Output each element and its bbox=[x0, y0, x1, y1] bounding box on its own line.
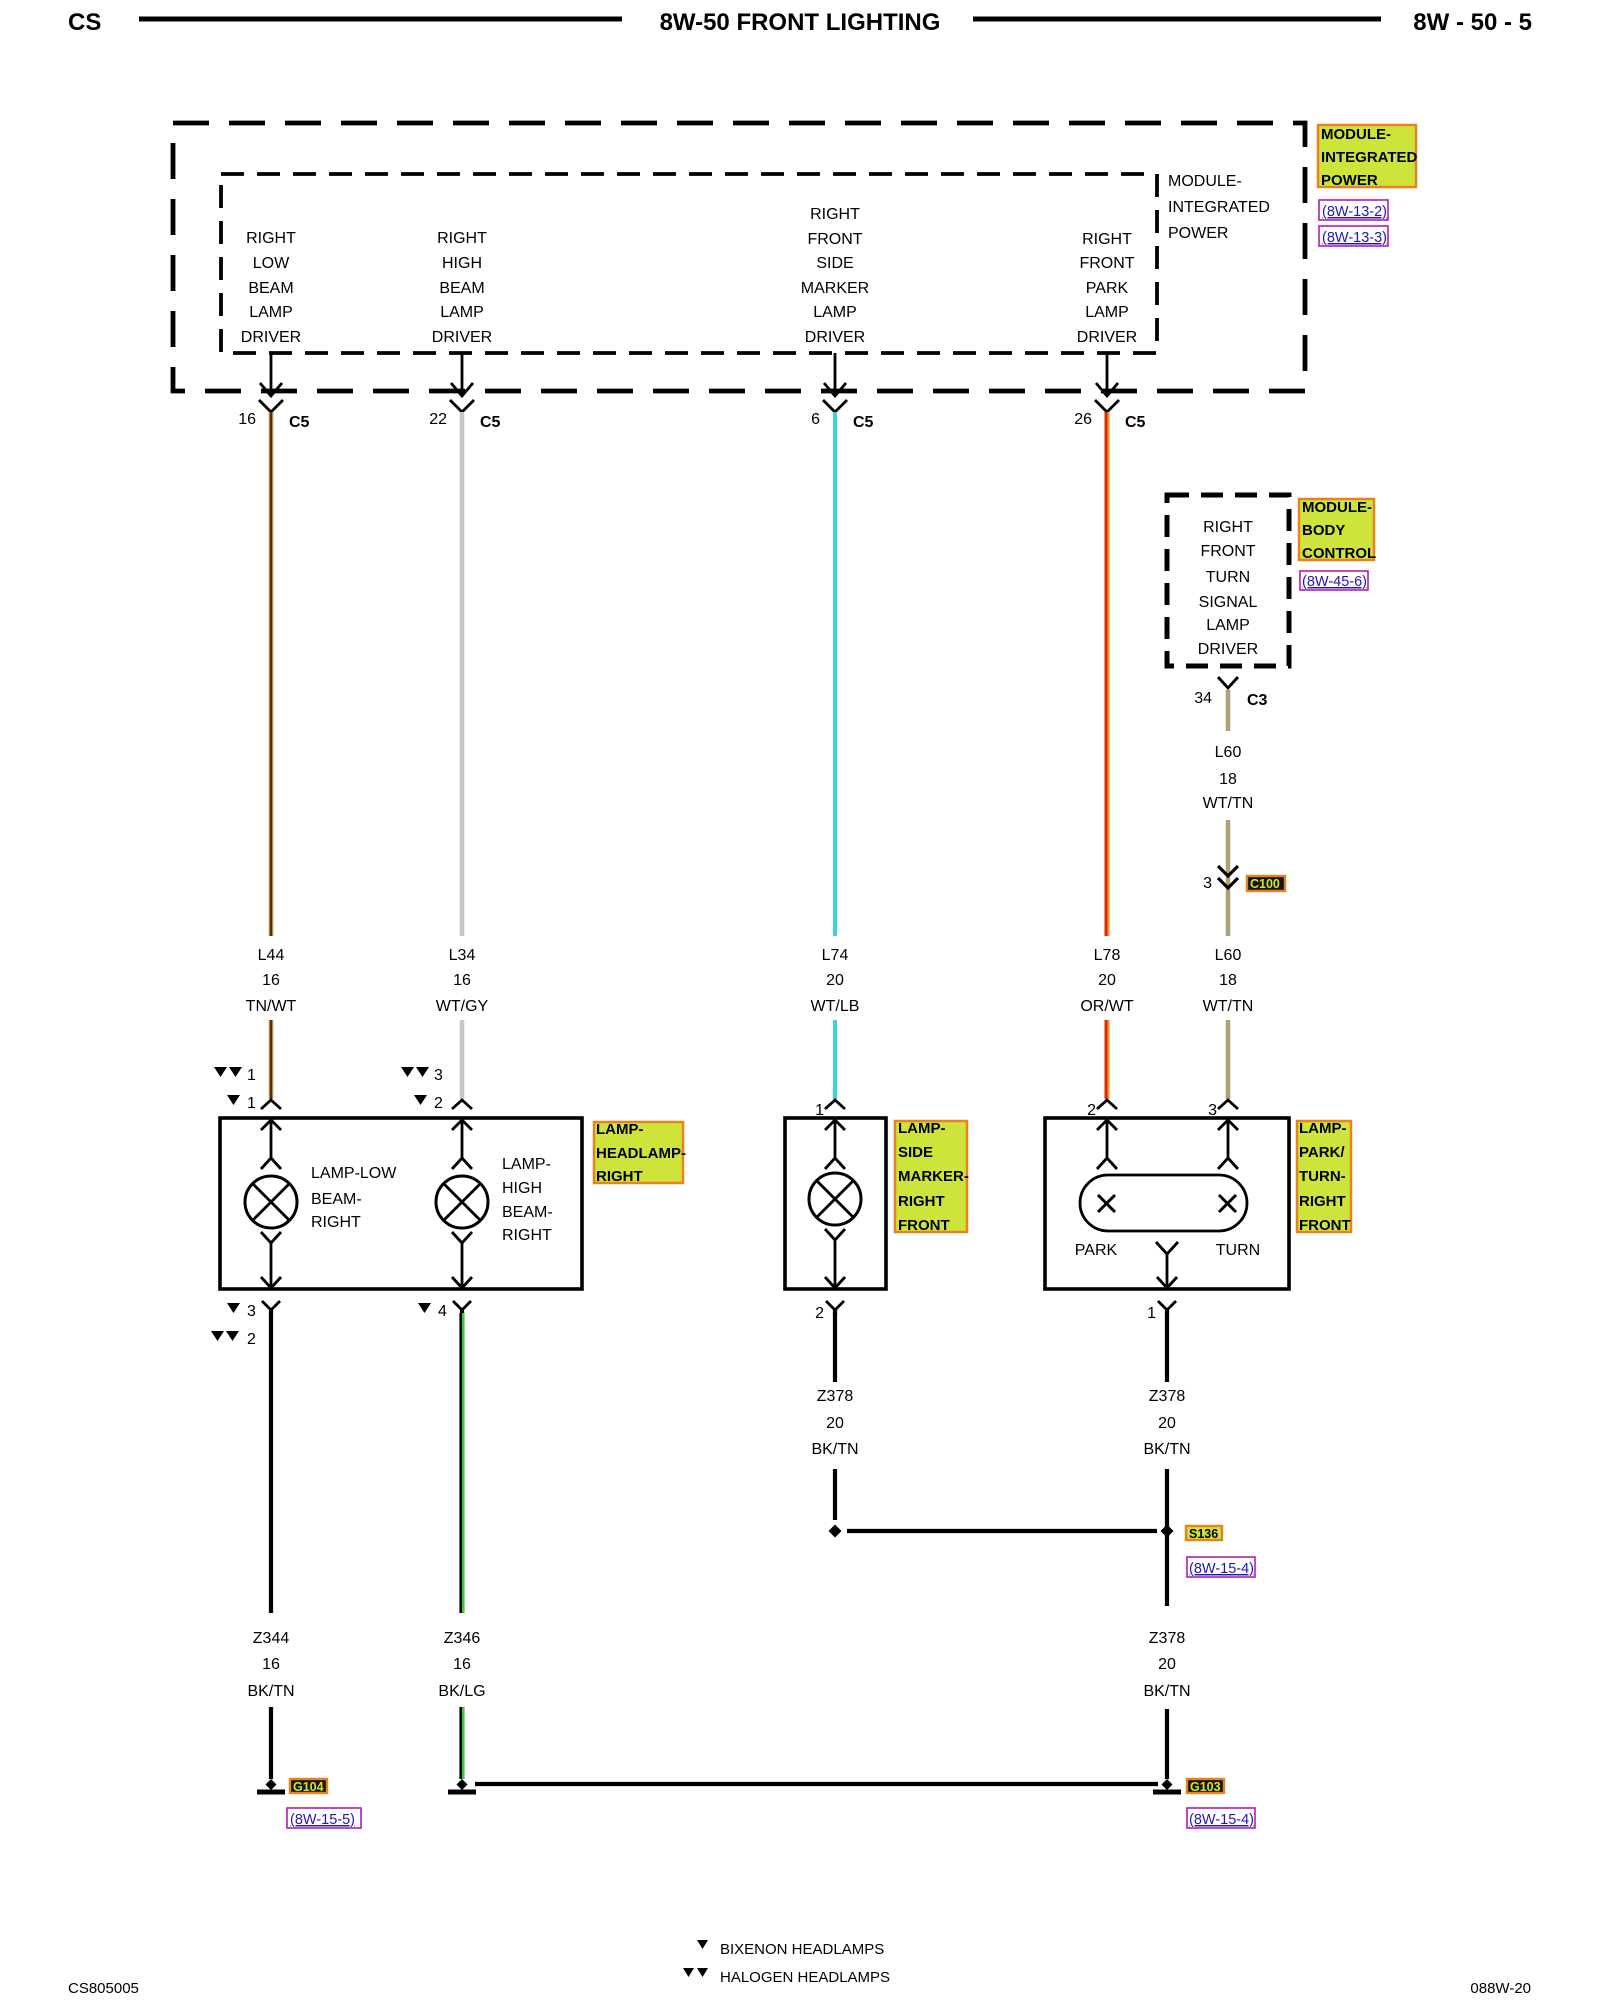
high beam branch bottom arrow bbox=[452, 1232, 472, 1288]
svg-text:(8W-15-4): (8W-15-4) bbox=[1189, 1812, 1254, 1828]
svg-text:HIGH: HIGH bbox=[442, 255, 482, 272]
ground label G103 bbox=[1187, 1779, 1224, 1794]
svg-text:8W-50 FRONT LIGHTING: 8W-50 FRONT LIGHTING bbox=[660, 9, 941, 36]
driver output arrow pin6 bbox=[824, 353, 846, 396]
link 8W-15-5 bbox=[287, 1808, 361, 1828]
wire label L78 20 OR/WT bbox=[1080, 947, 1134, 1015]
svg-text:RIGHT: RIGHT bbox=[596, 1168, 643, 1185]
svg-text:HEADLAMP-: HEADLAMP- bbox=[596, 1145, 686, 1162]
wire Z346 BK/LG upper segment bbox=[461, 1313, 464, 1613]
svg-text:MODULE-: MODULE- bbox=[1302, 499, 1372, 516]
turn branch top arrow bbox=[1218, 1120, 1238, 1169]
svg-text:18: 18 bbox=[1219, 771, 1237, 788]
svg-text:INTEGRATED: INTEGRATED bbox=[1321, 149, 1418, 166]
svg-text:088W-20: 088W-20 bbox=[1470, 1980, 1531, 1997]
wire Z378 park/turn through splice bbox=[1165, 1469, 1169, 1606]
MODULE-BODY CONTROL dashed box bbox=[1167, 495, 1289, 666]
splice label S136 bbox=[1186, 1526, 1222, 1541]
svg-text:3: 3 bbox=[1203, 875, 1212, 892]
connector C5 pin 16 bbox=[238, 400, 309, 431]
svg-text:LAMP: LAMP bbox=[1206, 617, 1250, 634]
svg-text:FRONT: FRONT bbox=[1299, 1217, 1351, 1234]
svg-text:G104: G104 bbox=[293, 1780, 324, 1794]
connector C3 pin 34 bbox=[1194, 677, 1267, 709]
svg-text:INTEGRATED: INTEGRATED bbox=[1168, 199, 1270, 216]
svg-text:20: 20 bbox=[826, 1415, 844, 1432]
svg-text:DRIVER: DRIVER bbox=[1198, 641, 1258, 658]
legend halogen bbox=[683, 1968, 890, 1986]
splice node S136 bbox=[1161, 1525, 1174, 1538]
callout box LAMP-SIDE MARKER-RIGHT FRONT bbox=[895, 1120, 969, 1234]
park/turn common bottom arrow bbox=[1156, 1242, 1178, 1288]
svg-text:2: 2 bbox=[815, 1305, 824, 1322]
ground symbol at Z346 bbox=[448, 1790, 476, 1795]
wire label L44 16 TN/WT bbox=[246, 947, 297, 1015]
bixenon marker pin 3 (low beam return) bbox=[227, 1303, 256, 1320]
connector C5 pin 22 bbox=[429, 400, 500, 431]
link 8W-13-3 bbox=[1319, 226, 1388, 246]
svg-text:L34: L34 bbox=[449, 947, 476, 964]
svg-text:20: 20 bbox=[826, 972, 844, 989]
svg-text:18: 18 bbox=[1219, 972, 1237, 989]
wire label Z378 20 BK/TN (side marker) bbox=[811, 1388, 858, 1458]
svg-text:TURN: TURN bbox=[1206, 569, 1250, 586]
wire Z346 to ground bbox=[461, 1707, 464, 1779]
bulb high beam bbox=[436, 1176, 488, 1228]
svg-text:BEAM: BEAM bbox=[248, 280, 293, 297]
label MODULE-INTEGRATED POWER (inside box) bbox=[1168, 173, 1270, 242]
svg-text:TURN-: TURN- bbox=[1299, 1168, 1346, 1185]
callout box MODULE-INTEGRATED POWER bbox=[1318, 125, 1418, 189]
svg-text:Z378: Z378 bbox=[817, 1388, 854, 1405]
svg-text:LAMP-LOW: LAMP-LOW bbox=[311, 1165, 397, 1182]
low beam branch bottom arrow bbox=[261, 1232, 281, 1288]
svg-text:WT/TN: WT/TN bbox=[1203, 795, 1254, 812]
bixenon marker pin 4 (high beam return) bbox=[418, 1303, 447, 1320]
splice node at side marker bbox=[829, 1525, 842, 1538]
callout box MODULE-BODY CONTROL bbox=[1299, 499, 1376, 562]
svg-text:3: 3 bbox=[247, 1303, 256, 1320]
svg-text:Z378: Z378 bbox=[1149, 1630, 1186, 1647]
svg-text:RIGHT: RIGHT bbox=[810, 206, 860, 223]
pin 3 turn bbox=[1208, 1100, 1238, 1119]
halogen marker pin 1 (low beam) bbox=[214, 1067, 256, 1084]
wire L60 WT/TN segment below C3 bbox=[1226, 690, 1231, 731]
svg-text:FRONT: FRONT bbox=[807, 231, 862, 248]
svg-text:RIGHT: RIGHT bbox=[246, 230, 296, 247]
svg-text:BK/TN: BK/TN bbox=[1143, 1441, 1190, 1458]
wire L74 WT/LB lower segment bbox=[833, 1020, 837, 1099]
svg-text:LAMP-: LAMP- bbox=[1299, 1120, 1347, 1137]
svg-text:MODULE-: MODULE- bbox=[1321, 126, 1391, 143]
wire label L34 16 WT/GY bbox=[436, 947, 489, 1015]
svg-text:RIGHT: RIGHT bbox=[502, 1227, 552, 1244]
svg-text:WT/GY: WT/GY bbox=[436, 998, 489, 1015]
svg-text:BODY: BODY bbox=[1302, 522, 1345, 539]
wire label Z378 20 BK/TN (park/turn) bbox=[1143, 1388, 1190, 1458]
svg-text:POWER: POWER bbox=[1321, 172, 1378, 189]
svg-text:LAMP: LAMP bbox=[249, 304, 293, 321]
svg-text:L60: L60 bbox=[1215, 744, 1242, 761]
svg-text:L44: L44 bbox=[258, 947, 285, 964]
bulb low beam bbox=[245, 1176, 297, 1228]
svg-text:C100: C100 bbox=[1250, 877, 1280, 891]
svg-text:LAMP-: LAMP- bbox=[502, 1156, 551, 1173]
svg-text:TN/WT: TN/WT bbox=[246, 998, 297, 1015]
svg-text:CS805005: CS805005 bbox=[68, 1980, 139, 1997]
wire label Z344 16 BK/TN bbox=[247, 1630, 294, 1700]
park/turn dual filament lamp body bbox=[1080, 1175, 1247, 1231]
halogen marker pin 2 (low beam return) bbox=[211, 1331, 256, 1348]
svg-text:LAMP: LAMP bbox=[440, 304, 484, 321]
connector at headlamp pin 1 bbox=[261, 1100, 281, 1109]
link 8W-13-2 bbox=[1319, 200, 1388, 220]
svg-text:C5: C5 bbox=[480, 414, 501, 431]
svg-text:(8W-15-4): (8W-15-4) bbox=[1189, 1561, 1254, 1577]
svg-text:PARK/: PARK/ bbox=[1299, 1144, 1345, 1161]
MODULE-INTEGRATED POWER outer dashed box bbox=[173, 123, 1305, 391]
driver output arrow pin26 bbox=[1096, 353, 1118, 396]
wire L34 WT/GY upper segment bbox=[460, 412, 465, 936]
svg-text:BK/TN: BK/TN bbox=[247, 1683, 294, 1700]
svg-text:DRIVER: DRIVER bbox=[432, 329, 492, 346]
svg-text:20: 20 bbox=[1098, 972, 1116, 989]
svg-text:SIGNAL: SIGNAL bbox=[1199, 594, 1258, 611]
park branch top arrow bbox=[1097, 1120, 1117, 1169]
splice S136 horizontal wire bbox=[847, 1529, 1157, 1533]
svg-text:C5: C5 bbox=[289, 414, 310, 431]
svg-text:1: 1 bbox=[247, 1067, 256, 1084]
svg-text:RIGHT: RIGHT bbox=[1203, 519, 1253, 536]
svg-text:WT/TN: WT/TN bbox=[1203, 998, 1254, 1015]
wire Z378 side marker upper segment bbox=[833, 1313, 837, 1382]
svg-text:OR/WT: OR/WT bbox=[1080, 998, 1134, 1015]
bixenon marker pin 2 (high beam) bbox=[414, 1095, 443, 1112]
svg-text:CONTROL: CONTROL bbox=[1302, 545, 1376, 562]
svg-text:BIXENON HEADLAMPS: BIXENON HEADLAMPS bbox=[720, 1941, 884, 1958]
svg-text:20: 20 bbox=[1158, 1415, 1176, 1432]
svg-text:LOW: LOW bbox=[253, 255, 290, 272]
svg-text:2: 2 bbox=[247, 1331, 256, 1348]
svg-text:RIGHT: RIGHT bbox=[898, 1193, 945, 1210]
label RIGHT FRONT SIDE MARKER LAMP DRIVER bbox=[801, 206, 869, 346]
link 8W-15-4 (splice) bbox=[1187, 1557, 1255, 1577]
wire L78 OR/WT lower segment bbox=[1106, 1020, 1107, 1099]
connector C5 pin 6 bbox=[811, 400, 873, 431]
svg-text:G103: G103 bbox=[1190, 1780, 1221, 1794]
wire L44 TN/WT lower segment bbox=[268, 1020, 274, 1099]
svg-text:LAMP-: LAMP- bbox=[898, 1120, 946, 1137]
link 8W-45-6 bbox=[1300, 571, 1368, 590]
svg-text:BK/TN: BK/TN bbox=[811, 1441, 858, 1458]
svg-text:(8W-45-6): (8W-45-6) bbox=[1302, 574, 1367, 590]
ground node at Z346 bbox=[457, 1779, 468, 1790]
svg-text:MODULE-: MODULE- bbox=[1168, 173, 1242, 190]
svg-text:SIDE: SIDE bbox=[816, 255, 853, 272]
driver output arrow pin22 bbox=[451, 353, 473, 396]
header title 8W-50 FRONT LIGHTING bbox=[660, 9, 941, 36]
svg-text:Z378: Z378 bbox=[1149, 1388, 1186, 1405]
svg-text:Z344: Z344 bbox=[253, 1630, 290, 1647]
svg-text:LAMP: LAMP bbox=[1085, 304, 1129, 321]
svg-text:34: 34 bbox=[1194, 690, 1212, 707]
svg-text:1: 1 bbox=[1147, 1305, 1156, 1322]
svg-text:BEAM-: BEAM- bbox=[502, 1204, 553, 1221]
svg-text:FRONT: FRONT bbox=[1079, 255, 1134, 272]
svg-text:(8W-13-2): (8W-13-2) bbox=[1322, 204, 1387, 220]
wire Z344 BK/TN upper segment bbox=[269, 1313, 273, 1613]
svg-text:6: 6 bbox=[811, 411, 820, 428]
svg-text:HALOGEN HEADLAMPS: HALOGEN HEADLAMPS bbox=[720, 1969, 890, 1986]
label LAMP-LOW BEAM-RIGHT bbox=[311, 1165, 397, 1231]
connector at headlamp pin 3 bbox=[262, 1301, 280, 1316]
bixenon marker pin 1 (low beam) bbox=[227, 1095, 256, 1112]
module inner dashed box bbox=[221, 174, 1157, 353]
wire Z378 park/turn upper segment bbox=[1165, 1313, 1169, 1382]
label RIGHT LOW BEAM LAMP DRIVER bbox=[241, 230, 301, 346]
svg-text:PARK: PARK bbox=[1075, 1242, 1118, 1259]
svg-text:WT/LB: WT/LB bbox=[811, 998, 860, 1015]
header rule right bbox=[973, 17, 1381, 22]
svg-text:DRIVER: DRIVER bbox=[805, 329, 865, 346]
ground G103 node bbox=[1162, 1779, 1173, 1790]
svg-text:Z346: Z346 bbox=[444, 1630, 481, 1647]
svg-text:BK/LG: BK/LG bbox=[438, 1683, 485, 1700]
svg-text:16: 16 bbox=[238, 411, 256, 428]
component box LAMP-HEADLAMP-RIGHT bbox=[220, 1118, 582, 1289]
ground G104 symbol bbox=[257, 1790, 285, 1795]
svg-text:C3: C3 bbox=[1247, 692, 1268, 709]
pin 1 park/turn return bbox=[1147, 1301, 1176, 1322]
high beam branch top arrow bbox=[452, 1120, 472, 1169]
wire L60 WT/TN segment above C100 bbox=[1226, 820, 1231, 936]
wire L60 WT/TN lower segment bbox=[1226, 1020, 1231, 1099]
svg-text:HIGH: HIGH bbox=[502, 1180, 542, 1197]
header page number 8W - 50 - 5 bbox=[1413, 9, 1532, 36]
svg-text:C5: C5 bbox=[1125, 414, 1146, 431]
svg-text:RIGHT: RIGHT bbox=[311, 1214, 361, 1231]
svg-text:BEAM-: BEAM- bbox=[311, 1191, 362, 1208]
component box LAMP-SIDE MARKER-RIGHT FRONT bbox=[785, 1118, 886, 1289]
svg-text:RIGHT: RIGHT bbox=[1299, 1193, 1346, 1210]
svg-text:(8W-15-5): (8W-15-5) bbox=[290, 1812, 355, 1828]
wire L74 WT/LB upper segment bbox=[833, 412, 837, 936]
footer drawing number CS805005 bbox=[68, 1980, 139, 1997]
svg-text:FRONT: FRONT bbox=[898, 1217, 950, 1234]
ground label G104 bbox=[290, 1779, 327, 1794]
svg-text:SIDE: SIDE bbox=[898, 1144, 933, 1161]
header rule left bbox=[139, 17, 622, 22]
svg-text:16: 16 bbox=[262, 972, 280, 989]
svg-text:MARKER: MARKER bbox=[801, 280, 869, 297]
footer sheet number 088W-20 bbox=[1470, 1980, 1531, 1997]
svg-text:22: 22 bbox=[429, 411, 447, 428]
wire L78 OR/WT upper segment bbox=[1106, 412, 1107, 936]
wire L44 TN/WT upper segment bbox=[268, 412, 274, 936]
svg-text:L74: L74 bbox=[822, 947, 849, 964]
label TURN bbox=[1216, 1242, 1260, 1259]
label RIGHT FRONT PARK LAMP DRIVER bbox=[1077, 231, 1137, 346]
connector C5 pin 26 bbox=[1074, 400, 1145, 431]
svg-text:16: 16 bbox=[453, 1656, 471, 1673]
pin 2 park bbox=[1087, 1100, 1117, 1119]
component box LAMP-PARK/TURN-RIGHT FRONT bbox=[1045, 1118, 1289, 1289]
svg-text:16: 16 bbox=[262, 1656, 280, 1673]
svg-text:C5: C5 bbox=[853, 414, 874, 431]
svg-text:LAMP: LAMP bbox=[813, 304, 857, 321]
svg-text:CS: CS bbox=[68, 9, 101, 36]
low beam branch top arrow bbox=[261, 1120, 281, 1169]
side marker branch top arrow bbox=[825, 1120, 845, 1169]
svg-text:DRIVER: DRIVER bbox=[1077, 329, 1137, 346]
svg-text:POWER: POWER bbox=[1168, 225, 1228, 242]
wire label Z378 20 BK/TN (lower) bbox=[1143, 1630, 1190, 1700]
connector C100 bbox=[1203, 866, 1285, 892]
label RIGHT HIGH BEAM LAMP DRIVER bbox=[432, 230, 492, 346]
link 8W-15-4 (ground) bbox=[1187, 1808, 1255, 1828]
svg-text:1: 1 bbox=[247, 1095, 256, 1112]
pin 2 side marker return bbox=[815, 1301, 844, 1322]
svg-text:TURN: TURN bbox=[1216, 1242, 1260, 1259]
label LAMP-HIGH BEAM-RIGHT bbox=[502, 1156, 553, 1244]
label PARK bbox=[1075, 1242, 1118, 1259]
svg-text:20: 20 bbox=[1158, 1656, 1176, 1673]
ground bus wire to G103 bbox=[475, 1782, 1158, 1786]
ground G104 node bbox=[266, 1779, 277, 1790]
driver output arrow pin16 bbox=[260, 353, 282, 396]
svg-text:(8W-13-3): (8W-13-3) bbox=[1322, 230, 1387, 246]
svg-text:16: 16 bbox=[453, 972, 471, 989]
legend bixenon bbox=[697, 1940, 884, 1958]
svg-text:26: 26 bbox=[1074, 411, 1092, 428]
wire label L74 20 WT/LB bbox=[811, 947, 860, 1015]
wire Z378 to ground G103 bbox=[1165, 1709, 1169, 1779]
svg-text:L78: L78 bbox=[1094, 947, 1121, 964]
svg-text:BEAM: BEAM bbox=[439, 280, 484, 297]
pin 1 side marker bbox=[815, 1100, 845, 1119]
svg-text:RIGHT: RIGHT bbox=[437, 230, 487, 247]
svg-text:BK/TN: BK/TN bbox=[1143, 1683, 1190, 1700]
bulb side marker bbox=[809, 1173, 861, 1225]
svg-text:2: 2 bbox=[434, 1095, 443, 1112]
ground G103 symbol bbox=[1153, 1790, 1181, 1795]
callout box LAMP-HEADLAMP-RIGHT bbox=[594, 1121, 686, 1185]
svg-text:4: 4 bbox=[438, 1303, 447, 1320]
wire Z344 to ground G104 bbox=[269, 1707, 273, 1779]
halogen marker pin 3 (high beam) bbox=[401, 1067, 443, 1084]
header label CS bbox=[68, 9, 101, 36]
svg-text:DRIVER: DRIVER bbox=[241, 329, 301, 346]
wire L34 WT/GY lower segment bbox=[460, 1020, 465, 1099]
svg-text:LAMP-: LAMP- bbox=[596, 1121, 644, 1138]
wire label L60 18 WT/TN (upper) bbox=[1203, 744, 1254, 812]
wire label L60 18 WT/TN (lower) bbox=[1203, 947, 1254, 1015]
connector at headlamp pin 2 bbox=[452, 1100, 472, 1109]
wire Z378 side marker to splice bbox=[833, 1469, 837, 1520]
svg-text:L60: L60 bbox=[1215, 947, 1242, 964]
svg-text:FRONT: FRONT bbox=[1200, 543, 1255, 560]
callout box LAMP-PARK/TURN-RIGHT FRONT bbox=[1297, 1120, 1351, 1234]
wire label Z346 16 BK/LG bbox=[438, 1630, 485, 1700]
svg-text:8W - 50 - 5: 8W - 50 - 5 bbox=[1413, 9, 1532, 36]
label RIGHT FRONT TURN SIGNAL LAMP DRIVER bbox=[1198, 519, 1258, 658]
svg-text:MARKER-: MARKER- bbox=[898, 1168, 969, 1185]
svg-text:3: 3 bbox=[434, 1067, 443, 1084]
side marker branch bottom arrow bbox=[825, 1229, 845, 1288]
svg-text:RIGHT: RIGHT bbox=[1082, 231, 1132, 248]
svg-text:PARK: PARK bbox=[1086, 280, 1129, 297]
connector at headlamp pin 4 bbox=[453, 1301, 471, 1316]
svg-text:S136: S136 bbox=[1189, 1527, 1218, 1541]
